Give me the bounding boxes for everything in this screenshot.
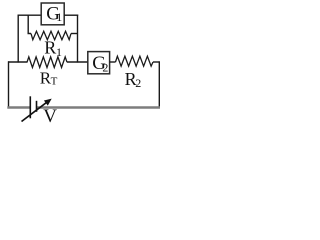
svg-text:V: V (43, 106, 57, 127)
wire right rail x=159.3 (158, 61, 160, 107)
wire R1 left bracket drop x=28 (28, 15, 31, 34)
wire left rail x=8 (8, 61, 10, 107)
svg-text:1: 1 (56, 45, 62, 59)
wire R2 right foot to right rail corner (153, 61, 159, 63)
wire bottom gray right segment from battery to right rail (37, 106, 160, 108)
wire left vertical drop x=18 from top node to bottom row (17, 15, 19, 63)
resistor R2 zigzag (116, 56, 154, 66)
variable arrow across battery (22, 99, 52, 122)
wire bottom gray left segment to battery (7, 106, 30, 108)
svg-text:1: 1 (56, 10, 62, 24)
svg-text:T: T (51, 75, 58, 87)
resistor RT zigzag (27, 57, 67, 68)
wire top lead from node to G1 left (18, 14, 42, 16)
label RT (40, 68, 58, 87)
svg-text:2: 2 (135, 76, 141, 90)
resistor R1 zigzag (31, 31, 71, 39)
battery V short plate (36, 101, 38, 112)
label R2 (125, 69, 142, 90)
wire R1 right foot to right drop (71, 33, 78, 35)
galvanometer U G2 box (88, 52, 110, 75)
wire G1 right lead (64, 14, 78, 16)
galvanometer U G1 box (41, 3, 64, 25)
svg-text:2: 2 (102, 60, 108, 74)
battery V long plate (29, 96, 31, 118)
wire G2 right lead to R2 (110, 61, 116, 63)
wire bottom-row left segment from left rail corner to RT (8, 61, 28, 63)
wire right vertical drop x=77.5 from G1 lead down to bottom row (77, 15, 79, 63)
svg-text:R: R (44, 38, 56, 58)
label R1 (44, 38, 62, 59)
wire RT right to G2 left (through junction with right drop) (67, 61, 88, 63)
